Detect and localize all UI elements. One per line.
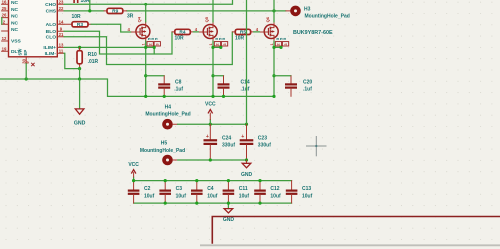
capacitor C24 <box>204 124 236 160</box>
svg-text:10uf: 10uf <box>239 194 250 200</box>
svg-text:10uf: 10uf <box>144 194 155 200</box>
svg-text:C11: C11 <box>239 186 248 192</box>
wire C23 feed vertical <box>246 0 248 124</box>
svg-text:ILIM+: ILIM+ <box>43 45 56 51</box>
IC U1 bottom pin stub <box>25 57 27 64</box>
svg-text:ILIM-: ILIM- <box>45 51 57 57</box>
svg-text:R4: R4 <box>179 30 185 36</box>
wire left edge stub <box>1 18 3 25</box>
wire rail5 top of bottom caps <box>134 180 292 182</box>
junction rail6 x196.8 <box>195 202 198 205</box>
junction GND rail R10 <box>78 77 81 80</box>
svg-text:H5: H5 <box>161 141 168 147</box>
mounting hole H5 <box>140 141 185 164</box>
svg-text:GND: GND <box>223 217 235 223</box>
svg-text:R5: R5 <box>240 30 246 36</box>
svg-text:3: 3 <box>284 43 288 45</box>
capacitor C12 <box>254 181 281 204</box>
wire rail6 bottom of bottom caps <box>134 202 292 204</box>
svg-text:SW: SW <box>18 48 23 56</box>
svg-text:EP: EP <box>23 50 28 56</box>
wire CHS net right <box>127 10 286 12</box>
ground GND symbol right <box>241 160 253 178</box>
svg-text:NC: NC <box>11 0 19 6</box>
junction rail5 x165.2 <box>164 179 167 182</box>
IC U1 left pin stubs <box>2 4 9 51</box>
svg-text:C13: C13 <box>302 186 311 192</box>
svg-text:BUK9Y8R7-60E: BUK9Y8R7-60E <box>293 30 333 36</box>
wire rail4 <box>173 159 178 161</box>
transistor Q6 <box>256 16 289 46</box>
svg-text:GND: GND <box>241 172 253 178</box>
svg-text:21: 21 <box>59 32 64 37</box>
svg-text:C20: C20 <box>303 80 312 86</box>
svg-text:26: 26 <box>2 13 7 18</box>
junction M2 C14 branch <box>211 74 214 77</box>
hierarchical sheet outline <box>212 217 500 244</box>
svg-text:10R: 10R <box>235 36 245 42</box>
resistor R10 <box>77 47 99 68</box>
wire ILIM- to R10 bottom <box>64 53 80 68</box>
svg-text:GND: GND <box>74 121 86 127</box>
IC U1 body <box>9 0 58 57</box>
svg-text:10uf: 10uf <box>207 194 218 200</box>
wire CHS net left <box>64 10 104 12</box>
svg-text:10uf: 10uf <box>270 194 281 200</box>
mounting hole H4 <box>145 105 190 128</box>
svg-text:.01R: .01R <box>88 59 99 65</box>
junction M3 drain <box>272 9 275 12</box>
wire R4 to M2 gate <box>193 31 198 33</box>
capacitor C3 <box>159 181 186 204</box>
junction M1b row1 <box>153 46 156 49</box>
svg-text:2: 2 <box>216 43 220 45</box>
svg-text:10R: 10R <box>72 14 82 20</box>
capacitor C2 <box>128 181 155 204</box>
svg-text:11: 11 <box>59 48 64 53</box>
mounting hole H3 <box>292 6 350 19</box>
svg-text:NC: NC <box>11 27 19 33</box>
wire ALO to M1 gate <box>91 24 131 32</box>
wire top stub <box>89 0 91 11</box>
svg-text:13: 13 <box>59 42 64 47</box>
junction M1 C8 branch <box>144 74 147 77</box>
ground GND symbol bottom <box>223 203 235 223</box>
svg-text:2: 2 <box>277 43 281 45</box>
IC U1 left pin names <box>11 0 22 55</box>
svg-text:C23: C23 <box>258 135 267 141</box>
junction rail4 C23 <box>245 158 248 161</box>
junction rail6 x228.4 <box>227 202 230 205</box>
junction rail3 C24 <box>209 123 212 126</box>
cursor crosshair center <box>315 145 317 147</box>
IC U1 rotated bottom pin names <box>18 48 29 56</box>
svg-text:C8: C8 <box>175 80 182 86</box>
svg-text:VSS: VSS <box>11 39 22 45</box>
svg-text:R10: R10 <box>88 52 97 58</box>
junction M3 C20 branch <box>272 74 275 77</box>
svg-text:23: 23 <box>59 0 64 4</box>
wire IC bottom pin <box>25 64 27 80</box>
wire BLO net <box>64 31 172 54</box>
junction rail5 x228.4 <box>227 179 230 182</box>
capacitor C4 <box>191 181 218 204</box>
resistor R9 <box>104 8 134 19</box>
resistor R3 <box>64 14 91 28</box>
junction M3 row1 <box>272 46 275 49</box>
svg-text:.1uf: .1uf <box>303 87 312 93</box>
svg-text:+: + <box>241 134 244 140</box>
junction R10 top <box>78 46 81 49</box>
wire M1 box stub <box>153 47 155 54</box>
svg-text:BLO: BLO <box>46 29 57 35</box>
junction rail5 VCC <box>132 179 135 182</box>
wire CHO net <box>64 0 233 4</box>
svg-text:NC: NC <box>11 14 19 20</box>
junction rail6 x165.2 <box>164 202 167 205</box>
wire M2 source chain <box>212 41 214 96</box>
svg-text:R3: R3 <box>77 22 83 28</box>
junction M2 row1 <box>211 46 214 49</box>
svg-text:C24: C24 <box>222 135 231 141</box>
svg-text:NC: NC <box>11 7 19 13</box>
IC U1 right pin numbers <box>59 0 64 53</box>
capacitor C14 <box>213 76 250 98</box>
wire VCC rail3 <box>173 123 178 125</box>
junction M3 gnd rail <box>272 95 275 98</box>
svg-text:25: 25 <box>2 6 7 11</box>
junction IC bottom pin <box>25 77 28 80</box>
junction rail6 x260.0 <box>258 202 261 205</box>
svg-text:16: 16 <box>2 0 7 4</box>
svg-text:CLO: CLO <box>46 35 57 41</box>
junction rail3 C23 <box>245 123 248 126</box>
cut-off component at top <box>73 0 90 4</box>
junction rail5 x260.0 <box>258 179 261 182</box>
svg-text:Q4: Q4 <box>137 16 142 22</box>
svg-text:H4: H4 <box>165 105 172 111</box>
resistor R5 <box>232 29 253 41</box>
svg-text:14: 14 <box>59 19 64 24</box>
capacitor C8 <box>146 76 184 98</box>
cursor crosshair <box>306 136 327 156</box>
svg-text:NC: NC <box>11 20 19 26</box>
IC U1 no-connect X <box>31 63 34 66</box>
capacitor C13 <box>286 181 313 204</box>
svg-text:330uf: 330uf <box>258 143 271 149</box>
capacitor C11 <box>223 181 250 204</box>
wire CLO net <box>64 32 232 65</box>
junction CHS/top <box>88 9 91 12</box>
junction M3b row1 <box>279 46 282 49</box>
svg-text:19: 19 <box>2 46 7 51</box>
IC U1 right pin names <box>43 2 56 57</box>
svg-text:C3: C3 <box>176 186 183 192</box>
svg-text:.1uf: .1uf <box>241 87 250 93</box>
svg-text:12: 12 <box>2 36 7 41</box>
junction M1 gnd rail <box>144 95 147 98</box>
svg-text:H3: H3 <box>304 6 311 12</box>
wire M2 drain <box>212 0 214 22</box>
svg-text:3R: 3R <box>127 13 134 19</box>
svg-text:1: 1 <box>209 43 213 45</box>
svg-text:MountingHole_Pad: MountingHole_Pad <box>145 112 190 118</box>
svg-text:.1uf: .1uf <box>174 87 183 93</box>
wire M3 drain <box>273 0 275 22</box>
resistor R4 <box>172 29 193 41</box>
junction M2 gnd rail <box>211 95 214 98</box>
wire M3 source link <box>274 46 282 48</box>
capacitor C23 <box>240 124 271 160</box>
svg-text:2: 2 <box>148 43 152 45</box>
svg-text:1: 1 <box>142 43 146 45</box>
svg-text:MountingHole_Pad: MountingHole_Pad <box>305 14 350 20</box>
IC U1 left pin numbers <box>2 0 7 51</box>
svg-text:330uf: 330uf <box>222 143 235 149</box>
svg-text:R9: R9 <box>112 9 118 15</box>
transistor Q4 <box>128 16 161 46</box>
svg-text:10uf: 10uf <box>302 194 313 200</box>
svg-text:3: 3 <box>223 43 227 45</box>
junction M1 drain <box>144 3 147 6</box>
svg-text:Q5: Q5 <box>204 16 209 22</box>
svg-text:1: 1 <box>270 43 274 45</box>
window edge grey line <box>200 244 500 246</box>
svg-text:C14: C14 <box>241 80 250 86</box>
svg-text:VCC: VCC <box>128 162 139 168</box>
junction M2b row1 <box>219 46 222 49</box>
junction M1 row1 <box>144 46 147 49</box>
svg-text:CHO: CHO <box>45 2 56 8</box>
junction R10 bottom <box>78 67 81 70</box>
svg-text:+: + <box>206 134 209 140</box>
wire M1 drain <box>145 4 147 22</box>
wire R5 to M3 gate <box>254 31 260 33</box>
svg-text:Q6: Q6 <box>265 16 270 22</box>
svg-text:22: 22 <box>59 6 64 11</box>
svg-text:3: 3 <box>156 43 160 45</box>
svg-text:VCC: VCC <box>205 102 216 108</box>
ground GND symbol left <box>74 79 86 127</box>
wire ILIM+ rail <box>64 46 154 48</box>
svg-text:C4: C4 <box>207 186 214 192</box>
svg-text:MountingHole_Pad: MountingHole_Pad <box>140 148 185 154</box>
svg-text:C12: C12 <box>270 186 279 192</box>
svg-text:C2: C2 <box>144 186 151 192</box>
junction rail5 x196.8 <box>195 179 198 182</box>
IC U1 bottom pin numbers <box>22 58 30 63</box>
power VCC symbol middle <box>205 102 216 125</box>
wire M2 source link <box>213 46 221 48</box>
svg-text:CHS: CHS <box>46 9 57 15</box>
wire R10 bottom to GND rail <box>79 69 81 79</box>
wire M3 source chain <box>273 41 275 96</box>
wire GND rail left <box>0 79 274 96</box>
svg-text:10R: 10R <box>81 0 91 4</box>
svg-text:10uf: 10uf <box>176 194 187 200</box>
svg-text:ALO: ALO <box>46 22 57 28</box>
IC U1 right pin stubs <box>57 4 64 53</box>
capacitor C20 <box>274 76 312 97</box>
junction rail4 C24 <box>209 158 212 161</box>
transistor Q5 <box>195 16 228 46</box>
wire M1 source chain <box>145 41 147 96</box>
power VCC symbol bottom <box>128 162 139 181</box>
svg-text:10R: 10R <box>175 36 185 42</box>
